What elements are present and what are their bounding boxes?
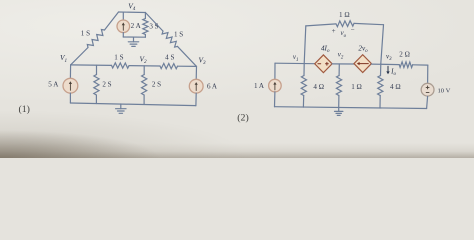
svg-text:1 S: 1 S	[174, 31, 183, 39]
svg-text:(1): (1)	[18, 104, 29, 115]
svg-text:3 S: 3 S	[149, 23, 158, 31]
svg-text:10 V: 10 V	[438, 88, 451, 95]
svg-text:2 S: 2 S	[102, 81, 111, 89]
svg-text:2 Ω: 2 Ω	[399, 51, 410, 59]
svg-text:4 Ω: 4 Ω	[313, 83, 324, 91]
svg-text:1 Ω: 1 Ω	[339, 11, 350, 19]
svg-text:1 Ω: 1 Ω	[351, 83, 362, 91]
svg-text:5 A: 5 A	[48, 80, 59, 88]
svg-text:−: −	[351, 26, 355, 34]
svg-text:1 S: 1 S	[114, 53, 123, 61]
svg-text:2 S: 2 S	[152, 81, 161, 89]
svg-text:4 Ω: 4 Ω	[390, 83, 401, 91]
svg-text:(2): (2)	[237, 112, 248, 123]
svg-text:1 S: 1 S	[81, 29, 90, 37]
svg-text:6 A: 6 A	[207, 83, 218, 91]
svg-text:1 A: 1 A	[254, 82, 265, 90]
svg-text:2 A: 2 A	[131, 22, 142, 30]
svg-text:4 S: 4 S	[165, 54, 174, 62]
svg-text:+: +	[332, 27, 336, 35]
